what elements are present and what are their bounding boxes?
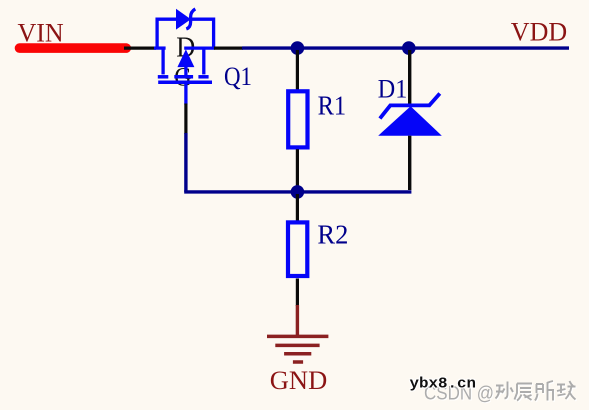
transistor Q1 (PMOS with body diode): [154, 9, 215, 105]
Q1 channel bar left: [158, 75, 169, 79]
hanzi sun: [496, 382, 514, 399]
resistor R2: [288, 222, 307, 276]
svg-text:R2: R2: [317, 219, 348, 250]
Q1 left stub: [161, 48, 164, 74]
diode D1 (zener): [378, 94, 442, 136]
Q1 body diode loop right: [192, 19, 214, 48]
wire Q1 gate down (black): [184, 104, 187, 135]
wire R1 to junction: [296, 149, 299, 192]
svg-text:VIN: VIN: [18, 18, 64, 47]
Q1 substrate arrow: [184, 63, 187, 77]
ground bar 4: [293, 360, 303, 364]
svg-text:R1: R1: [318, 90, 347, 120]
ground bar 1: [267, 335, 328, 339]
Q1 gate pin: [184, 82, 187, 104]
hanzi suo: [535, 381, 554, 401]
wire VIN bus (red): [20, 43, 127, 53]
Q1 right stub: [202, 48, 205, 74]
wire VDD net (navy): [242, 46, 569, 49]
wire D1 to bottom net: [408, 136, 411, 190]
wire junction to D1: [408, 50, 411, 107]
junction top R1: [291, 41, 305, 55]
watermark hanzi white emboss: [497, 382, 577, 402]
wire Q1 to VDD net (black): [214, 46, 243, 49]
wire junction to R2: [296, 194, 299, 221]
wire junction to R1: [296, 50, 299, 90]
Q1 channel bar center: [174, 75, 193, 79]
Q1 drain wire segment: [184, 46, 215, 49]
wire R2 to ground (black): [296, 279, 299, 307]
svg-text:GND: GND: [270, 365, 327, 395]
Q1 source wire segment: [154, 46, 166, 49]
wire bottom net (navy): [184, 190, 411, 193]
hanzi zhi: [557, 381, 576, 400]
wire VIN to Q1: [124, 46, 156, 49]
ground bar 2: [275, 344, 319, 348]
ground pin: [296, 305, 299, 335]
svg-text:ybx8.cn: ybx8.cn: [410, 376, 477, 393]
resistor R1: [288, 91, 307, 147]
svg-text:D1: D1: [378, 73, 408, 103]
junction top D1: [402, 41, 416, 55]
junction bottom: [291, 185, 305, 199]
Q1 body diode triangle: [177, 10, 191, 29]
Q1 body diode loop left: [157, 19, 177, 48]
ground bar 3: [284, 352, 311, 356]
Q1 body diode zener cathode: [186, 9, 195, 29]
wire Q1 gate down (navy): [184, 133, 187, 192]
svg-text:VDD: VDD: [511, 17, 567, 46]
svg-text:Q1: Q1: [224, 61, 252, 91]
hanzi chen: [515, 384, 533, 401]
watermark hanzi 孙辰所致 (gray strokes): [496, 381, 576, 401]
ground GND: [267, 305, 328, 362]
Q1 channel bar right: [198, 75, 208, 79]
Q1 gate line: [158, 81, 212, 85]
